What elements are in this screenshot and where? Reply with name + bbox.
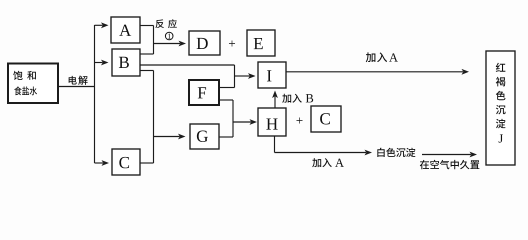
- wire B/C junction vertical: [153, 71, 155, 164]
- box F: [189, 80, 219, 105]
- box E: [247, 30, 275, 56]
- arrow into C: [95, 160, 110, 166]
- label 白色沉淀 (white precipitate): [377, 148, 415, 157]
- arrow H up into I: [272, 91, 278, 109]
- wire C output: [140, 162, 154, 164]
- box D: [189, 31, 220, 55]
- arrow into H: [233, 119, 257, 125]
- box B: [112, 49, 140, 76]
- arrow into G: [154, 134, 186, 140]
- arrow to white precipitate: [275, 150, 373, 156]
- label + between D and E: [229, 40, 235, 46]
- wire main branch vertical: [94, 25, 96, 163]
- box H: [258, 108, 286, 136]
- wire B bottom output: [140, 70, 154, 72]
- box G: [190, 124, 219, 149]
- label ① (circled 1): [165, 32, 173, 40]
- box C: [112, 149, 140, 175]
- wire A output: [140, 25, 154, 27]
- box A: [111, 17, 140, 43]
- wire H-junction vertical: [232, 100, 234, 137]
- wire B middle output: [140, 64, 235, 66]
- arrow into J box: [422, 152, 477, 158]
- arrow reaction into D: [154, 41, 187, 47]
- wire I-junction vertical: [234, 65, 236, 88]
- wire B top output: [140, 53, 154, 55]
- arrow into B: [95, 60, 109, 66]
- label 反应 (reaction): [155, 19, 176, 28]
- long arrow I to J: [286, 69, 469, 75]
- box C2: [311, 106, 341, 132]
- wire junction vertical A + B-top: [153, 26, 155, 55]
- wire G output: [219, 136, 233, 138]
- box 饱和食盐水 (saturated brine source): [8, 64, 58, 104]
- box J 红褐色沉淀 (red-brown precipitate J): [486, 51, 515, 165]
- wire from source box to branch vertical: [58, 86, 95, 88]
- arrow into A: [95, 22, 109, 28]
- label 在空气中久置 (left in air): [420, 160, 480, 169]
- wire F top output: [219, 87, 235, 89]
- wire H bottom down: [274, 136, 276, 153]
- label 加入A (add A) on long arrow: [366, 52, 398, 62]
- label 加入 A (add A) below wire: [312, 158, 344, 167]
- label 加入B (add B): [282, 94, 313, 103]
- wire F bottom output: [219, 99, 233, 101]
- label 电解 (electrolysis): [69, 76, 88, 85]
- label + between H and C: [296, 117, 302, 123]
- arrow into I: [235, 73, 256, 79]
- box I: [258, 62, 286, 88]
